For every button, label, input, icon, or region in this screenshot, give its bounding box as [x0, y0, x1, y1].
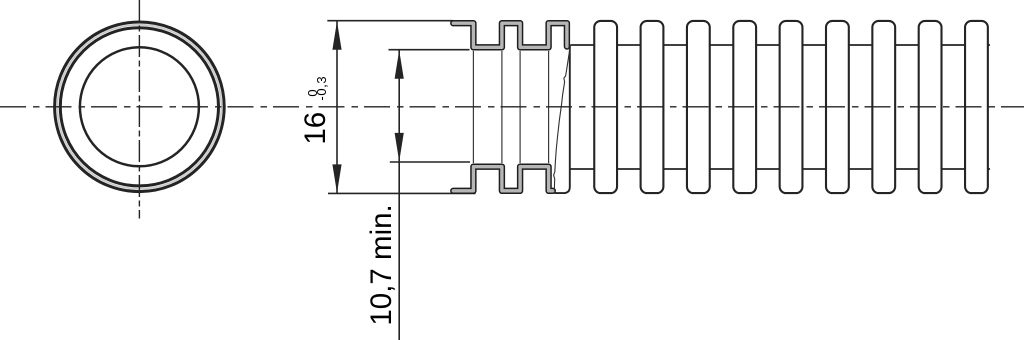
svg-text:10,7 min.: 10,7 min.	[365, 204, 398, 325]
rib 7	[872, 21, 895, 193]
arrow down (dim 10,7)	[395, 133, 404, 162]
inner corrugation edge line 3	[519, 51, 521, 163]
arrow down (dim 16)	[332, 164, 341, 193]
extension line top (dim 16)	[327, 20, 453, 22]
trough top line (outside view)	[570, 44, 990, 46]
section band top wall (black)	[453, 23, 567, 47]
inner corrugation edge line 1	[472, 51, 474, 163]
outer ring gap shading	[57, 25, 221, 189]
trough bottom line (outside view)	[570, 168, 991, 170]
section band bottom wall (black)	[453, 167, 553, 191]
svg-text:-0,3: -0,3	[314, 76, 329, 101]
outer circle	[55, 22, 225, 192]
dimension line 10,7	[398, 50, 400, 340]
rib 5	[780, 21, 803, 193]
outer ring inner circle	[60, 28, 218, 186]
arrow up (dim 10,7)	[395, 50, 404, 79]
rib 1	[594, 21, 617, 193]
extension line top (dim 10,7)	[389, 49, 470, 51]
section band top wall (gray core)	[453, 23, 567, 47]
rib 8	[919, 21, 942, 193]
horizontal centerline	[0, 106, 1024, 108]
crest 3 rib outline right of break	[555, 45, 570, 193]
inner corrugation edge line 2	[501, 51, 503, 163]
rib 9	[965, 21, 988, 193]
rib 4	[733, 21, 756, 193]
dimension line 16	[336, 21, 338, 193]
inner corrugation edge line 4	[548, 51, 550, 163]
extension line bottom (dim 10,7)	[390, 161, 470, 163]
extension line bottom (dim 16)	[328, 192, 476, 194]
svg-text:16: 16	[299, 112, 332, 145]
rib 6	[826, 21, 849, 193]
vertical centerline	[138, 0, 140, 219]
section band bottom wall (gray core)	[453, 167, 553, 191]
arrow up (dim 16)	[332, 21, 341, 50]
rib 2	[641, 21, 664, 193]
rib 3	[687, 21, 710, 193]
break line	[554, 47, 571, 191]
inner circle	[80, 47, 199, 166]
